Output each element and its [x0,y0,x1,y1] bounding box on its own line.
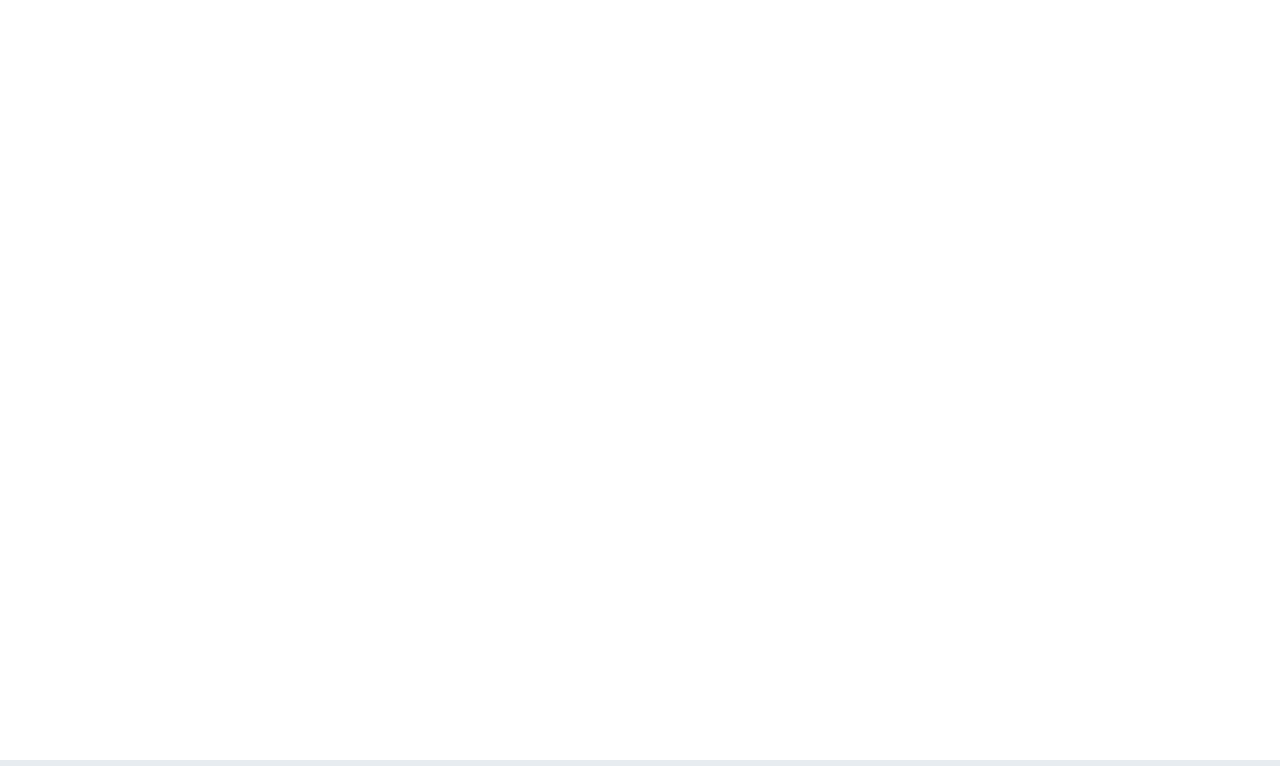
bottom gray strip [0,760,1280,766]
